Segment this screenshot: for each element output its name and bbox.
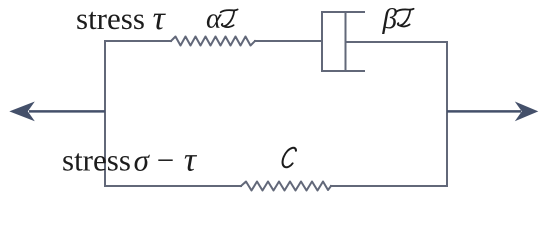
- svg-text:stress σ − τ: stress σ − τ: [62, 142, 198, 179]
- svg-text:stress τ: stress τ: [76, 0, 167, 37]
- svg-text:α: α: [206, 3, 222, 35]
- svg-text:β: β: [382, 3, 398, 35]
